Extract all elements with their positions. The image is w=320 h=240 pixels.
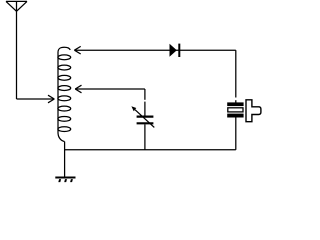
inductor L1 (tapped coil) — [58, 47, 71, 141]
diode D1 — [170, 44, 181, 57]
earphone (crystal earpiece) — [227, 100, 261, 122]
wire coil bottom to ground node — [64, 142, 66, 177]
wire right side down to earphone — [235, 50, 237, 97]
wire antenna tap with arrow into coil — [17, 95, 55, 103]
wire bottom horizontal rail — [65, 149, 236, 151]
wire middle tap arrow at coil — [75, 85, 81, 93]
ground — [55, 178, 75, 183]
wire top tap arrow at coil — [74, 46, 80, 54]
variable capacitor C1 — [131, 106, 154, 127]
wire antenna lead — [16, 11, 18, 99]
antenna — [6, 1, 27, 11]
wire variable capacitor to bottom rail — [144, 124, 146, 149]
wire middle tap to variable capacitor — [75, 89, 145, 116]
wire earphone bottom to bottom rail — [235, 118, 237, 150]
wire top horizontal — [74, 49, 235, 51]
